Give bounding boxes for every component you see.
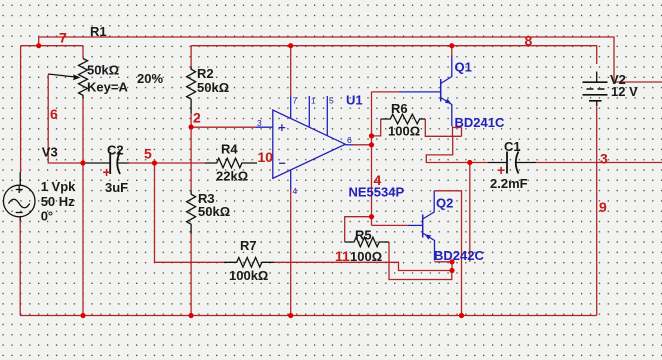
wire node 7 corner [38, 37, 40, 46]
junction bus pin4 [288, 313, 293, 318]
potentiometer arrow head [73, 74, 81, 80]
wire Q2 emitter junction [435, 262, 453, 271]
svg-text:BD241C: BD241C [455, 115, 505, 130]
resistor R3 50k [187, 190, 196, 234]
resistor R7 100k [224, 258, 274, 268]
resistor R2 50k [187, 66, 196, 113]
junction node 6 / pot bottom [80, 160, 85, 165]
wire op-amp pin 4 down [290, 190, 292, 316]
op-amp pin 6 stub [345, 144, 353, 146]
junction node 11 [449, 268, 454, 273]
wire R1 pot bottom vertical to ground bus [82, 99, 84, 316]
transistor Q1 collector [441, 56, 452, 84]
wire top rail node 8 [39, 37, 662, 82]
transistor Q1 base lead [399, 91, 441, 93]
wire Q1 emitter loop [453, 126, 462, 136]
resistor R1 potentiometer 50k [79, 59, 88, 99]
op-amp pin 1 [308, 96, 310, 127]
svg-text:10: 10 [258, 149, 274, 165]
svg-text:12 V: 12 V [611, 84, 638, 99]
battery V2 plates [583, 82, 608, 101]
svg-text:1: 1 [311, 96, 316, 106]
Q2 emitter arrow [425, 234, 431, 239]
op-amp pin 3 stub [255, 126, 272, 128]
wire output down to Q2 emitter [469, 163, 471, 262]
svg-text:2.2mF: 2.2mF [490, 176, 528, 191]
capacitor C2 plates [110, 152, 120, 174]
svg-text:Key=A: Key=A [87, 80, 128, 95]
junction output C1 [467, 160, 472, 165]
svg-text:C2: C2 [107, 143, 124, 158]
wire node 5 horizontal [129, 162, 205, 164]
svg-text:50kΩ: 50kΩ [198, 204, 230, 219]
wire ground bus [20, 315, 597, 317]
wire R7 left [155, 261, 225, 263]
wire node 6 wiper [48, 75, 83, 164]
op-amp minus input marker [279, 162, 285, 164]
svg-text:6: 6 [50, 106, 58, 122]
svg-text:R5: R5 [355, 228, 372, 243]
op-amp pin 5 [326, 96, 328, 136]
junction bus R3 [189, 313, 194, 318]
wire node 3 [536, 162, 662, 164]
transistor Q2 base bar [422, 215, 424, 238]
wire C2 left [84, 162, 86, 164]
svg-text:3: 3 [600, 151, 608, 167]
source V3 minus [16, 212, 23, 214]
transistor Q2 base lead [408, 224, 423, 226]
source V3 sine [9, 199, 30, 208]
wire node 7 horizontal [21, 45, 83, 47]
svg-text:R1: R1 [90, 24, 107, 39]
transistor Q2 emitter [423, 233, 435, 261]
svg-text:V3: V3 [42, 145, 58, 160]
svg-text:BD242C: BD242C [434, 248, 484, 263]
op-amp pin 4 [290, 170, 292, 190]
source V3 plus [16, 186, 23, 193]
svg-text:3: 3 [257, 118, 262, 128]
wire R5 loop top [345, 217, 372, 242]
svg-text:100kΩ: 100kΩ [229, 268, 268, 283]
wire Q1 base [372, 91, 400, 93]
svg-text:Q2: Q2 [436, 196, 453, 211]
wire R6 left [372, 119, 381, 136]
svg-text:50kΩ: 50kΩ [197, 80, 229, 95]
svg-text:R4: R4 [221, 142, 238, 157]
svg-text:R7: R7 [240, 238, 257, 253]
svg-text:50 Hz: 50 Hz [41, 194, 75, 209]
wire op-amp pin 7 supply [290, 46, 292, 96]
wire R2 top lead [190, 46, 192, 67]
wire R6 right [425, 119, 461, 136]
junction R6 left [369, 133, 374, 138]
svg-text:5: 5 [144, 146, 152, 162]
svg-text:20%: 20% [137, 71, 163, 86]
junction bus pot [80, 313, 85, 318]
wire op-amp output net 4 [353, 144, 372, 146]
junction Q1 collector [449, 43, 454, 48]
wire battery plus rail [191, 46, 597, 64]
wire output staircase [426, 136, 488, 162]
junction R5 tap [369, 214, 374, 219]
svg-text:6: 6 [347, 135, 352, 145]
svg-text:1 Vpk: 1 Vpk [41, 179, 76, 194]
svg-text:+: + [497, 162, 505, 178]
junction node 7 [36, 43, 41, 48]
wire V3 plus vertical [20, 46, 22, 172]
svg-text:100Ω: 100Ω [350, 249, 382, 264]
wire net 4 vertical [371, 92, 373, 226]
capacitor C1 plates [507, 152, 519, 174]
svg-text:100Ω: 100Ω [388, 124, 420, 139]
transistor Q1 emitter [441, 98, 452, 127]
resistor R6 100 [381, 114, 426, 124]
resistor R4 22k [205, 158, 257, 168]
svg-text:11: 11 [335, 248, 350, 264]
junction bus Q2 [459, 313, 464, 318]
svg-text:NE5534P: NE5534P [349, 185, 405, 200]
source V3 circle [3, 185, 35, 217]
junction Q2 emitter [449, 259, 454, 264]
Q1 emitter arrow [445, 99, 451, 104]
svg-text:U1: U1 [346, 93, 363, 108]
junction op-amp output [369, 142, 374, 147]
svg-text:0°: 0° [41, 209, 53, 224]
junction node 5 [152, 160, 157, 165]
svg-text:R2: R2 [197, 66, 214, 81]
wire R1 pot top lead [82, 46, 84, 59]
op-amp pin 7 [290, 96, 292, 119]
svg-text:4: 4 [293, 186, 298, 196]
svg-text:7: 7 [293, 96, 298, 106]
svg-text:3uF: 3uF [105, 180, 128, 195]
wire R3 leads [190, 127, 192, 316]
transistor Q1 base bar [440, 79, 442, 102]
junction pin7 supply [288, 43, 293, 48]
wire R5 right loop [389, 242, 452, 280]
svg-text:7: 7 [59, 30, 67, 46]
capacitor C1 2.2mF [488, 162, 536, 164]
source V3 leads [19, 172, 21, 221]
wire node 2 [191, 114, 255, 127]
svg-text:Q1: Q1 [455, 60, 472, 75]
svg-text:50kΩ: 50kΩ [87, 63, 119, 78]
wire node 11 R7 right [274, 262, 452, 270]
svg-text:2: 2 [193, 110, 201, 126]
resistor R5 100 [345, 237, 389, 247]
wire node 9 battery minus [596, 107, 598, 316]
op-amp U1 triangle [273, 110, 346, 178]
svg-text:R6: R6 [391, 101, 408, 116]
transistor Q2 collector [423, 191, 435, 219]
svg-text:8: 8 [525, 33, 533, 49]
wire V3 minus down [19, 221, 21, 316]
svg-text:22kΩ: 22kΩ [216, 169, 248, 184]
wire Q1 collector up [451, 46, 453, 56]
svg-text:5: 5 [329, 96, 334, 106]
potentiometer wiper line [48, 74, 75, 77]
wire Q2 collector to ground bus [434, 191, 461, 316]
svg-text:9: 9 [599, 199, 607, 215]
battery V2 leads [596, 72, 598, 107]
wire node 5 down to R7 [154, 163, 156, 262]
op-amp plus input marker [279, 124, 286, 131]
svg-text:C1: C1 [504, 139, 521, 154]
svg-text:+: + [103, 164, 111, 180]
junction node 2 [189, 124, 194, 129]
wire Q2 base [372, 224, 409, 226]
capacitor C2 3uF [86, 162, 129, 164]
